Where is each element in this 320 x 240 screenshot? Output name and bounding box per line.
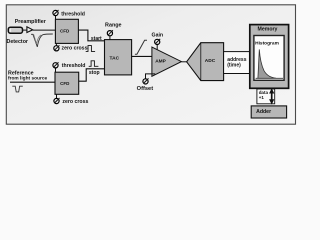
detector pulse waveform bbox=[31, 34, 53, 47]
svg-text:ADC: ADC bbox=[205, 58, 216, 64]
svg-text:Offset: Offset bbox=[137, 86, 154, 92]
svg-text:Range: Range bbox=[105, 23, 121, 29]
Histogram display bbox=[254, 36, 284, 81]
wire TAC to AMP bbox=[132, 55, 152, 57]
svg-text:zero cross: zero cross bbox=[62, 45, 88, 51]
svg-text:start: start bbox=[91, 36, 102, 42]
preamplifier triangle bbox=[27, 27, 33, 33]
histogram decay curve bbox=[256, 49, 283, 78]
ramp waveform symbol bbox=[135, 40, 147, 54]
svg-text:stop: stop bbox=[89, 70, 100, 76]
svg-text:Detector: Detector bbox=[7, 39, 29, 45]
svg-text:CFD: CFD bbox=[60, 81, 70, 86]
threshold adjust pot (CFD2) bbox=[53, 62, 59, 72]
svg-text:Memory: Memory bbox=[258, 27, 278, 33]
Memory bbox=[250, 25, 289, 89]
wire detector to preamplifier bbox=[23, 29, 27, 31]
svg-text:Preamplifier: Preamplifier bbox=[15, 19, 47, 25]
Adder bbox=[251, 106, 286, 118]
zero cross adjust pot (CFD2) bbox=[54, 94, 60, 103]
address (time) bus bbox=[224, 52, 250, 74]
svg-text:threshold: threshold bbox=[61, 11, 85, 17]
frame border bbox=[6, 5, 295, 124]
zero cross adjust pot (CFD1) bbox=[54, 43, 60, 51]
CFD block (detector signal channel) bbox=[55, 19, 78, 43]
threshold adjust pot (CFD1) bbox=[53, 10, 59, 19]
wire AMP to ADC bbox=[181, 61, 186, 63]
wire preamplifier to CFD1 bbox=[33, 29, 56, 31]
Gain adjust pot bbox=[155, 39, 161, 50]
svg-text:zero cross: zero cross bbox=[62, 99, 88, 105]
TAC block bbox=[105, 40, 132, 75]
svg-text:Histogram: Histogram bbox=[255, 40, 279, 46]
wire CFD2 stop output to TAC bbox=[79, 69, 105, 81]
start pulse symbol bbox=[86, 46, 95, 52]
ADC block bbox=[187, 43, 224, 81]
amplifier AMP bbox=[152, 47, 182, 76]
svg-text:from light source: from light source bbox=[8, 76, 48, 82]
detector bbox=[8, 27, 22, 33]
svg-text:threshold: threshold bbox=[62, 63, 86, 69]
CFD block (reference channel) bbox=[55, 72, 79, 94]
svg-text:TAC: TAC bbox=[110, 55, 120, 61]
data bus double arrow memory-adder bbox=[270, 89, 274, 103]
svg-text:Adder: Adder bbox=[256, 109, 271, 115]
stop pulse symbol bbox=[89, 61, 99, 67]
svg-text:AMP: AMP bbox=[155, 59, 166, 65]
wire CFD1 start output to TAC bbox=[78, 30, 104, 41]
Offset adjust pot bbox=[143, 74, 155, 84]
reference pulse waveform bbox=[12, 86, 22, 92]
wire reference to CFD2 bbox=[10, 81, 55, 83]
svg-text:(time): (time) bbox=[227, 62, 241, 68]
Range adjust pot bbox=[107, 30, 113, 39]
svg-text:CFD: CFD bbox=[60, 29, 70, 34]
svg-text:Gain: Gain bbox=[152, 32, 164, 38]
svg-text:+1: +1 bbox=[259, 95, 265, 100]
data +1 box bbox=[257, 89, 275, 104]
